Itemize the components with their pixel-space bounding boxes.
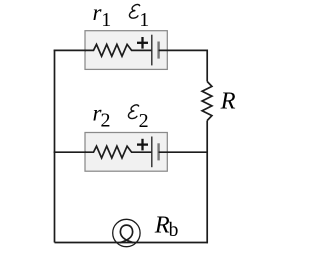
wire: left vertical [54,50,56,242]
svg-text:R: R [220,87,236,114]
wire: top horizontal (left lead to box 1) [54,49,86,51]
battery box 2 (enclosure for r2 and E2) [85,133,167,172]
battery 2 long plate [151,137,153,168]
wire: bottom horizontal [55,242,209,244]
resistor R zigzag [202,82,212,121]
resistor r2 zigzag [85,146,152,158]
svg-text:b: b [169,220,179,241]
battery 1 long plate [151,35,153,66]
resistor r1 zigzag [85,44,152,56]
svg-text:1: 1 [101,9,111,31]
bulb filament loop [120,225,134,243]
label E2 (script E) [128,105,139,119]
battery 2 plus sign [137,139,148,151]
wire from battery 1 to right vertical [159,49,208,51]
battery 1 short plate [157,42,159,59]
svg-text:R: R [154,212,170,239]
svg-text:2: 2 [139,110,149,132]
wire from battery 2 to right vertical [159,151,208,153]
bulb circle [113,219,140,246]
battery 1 plus sign [137,37,148,49]
wire: middle horizontal (left lead to box 2) [54,151,86,153]
battery box 1 (enclosure for r1 and E1) [85,31,167,70]
battery 2 short plate [157,143,159,160]
wire: right vertical upper segment [206,50,208,82]
label E1 (script E) [129,4,140,18]
wire: right vertical lower segment [206,121,208,244]
svg-text:1: 1 [139,9,149,31]
svg-text:2: 2 [101,110,111,132]
